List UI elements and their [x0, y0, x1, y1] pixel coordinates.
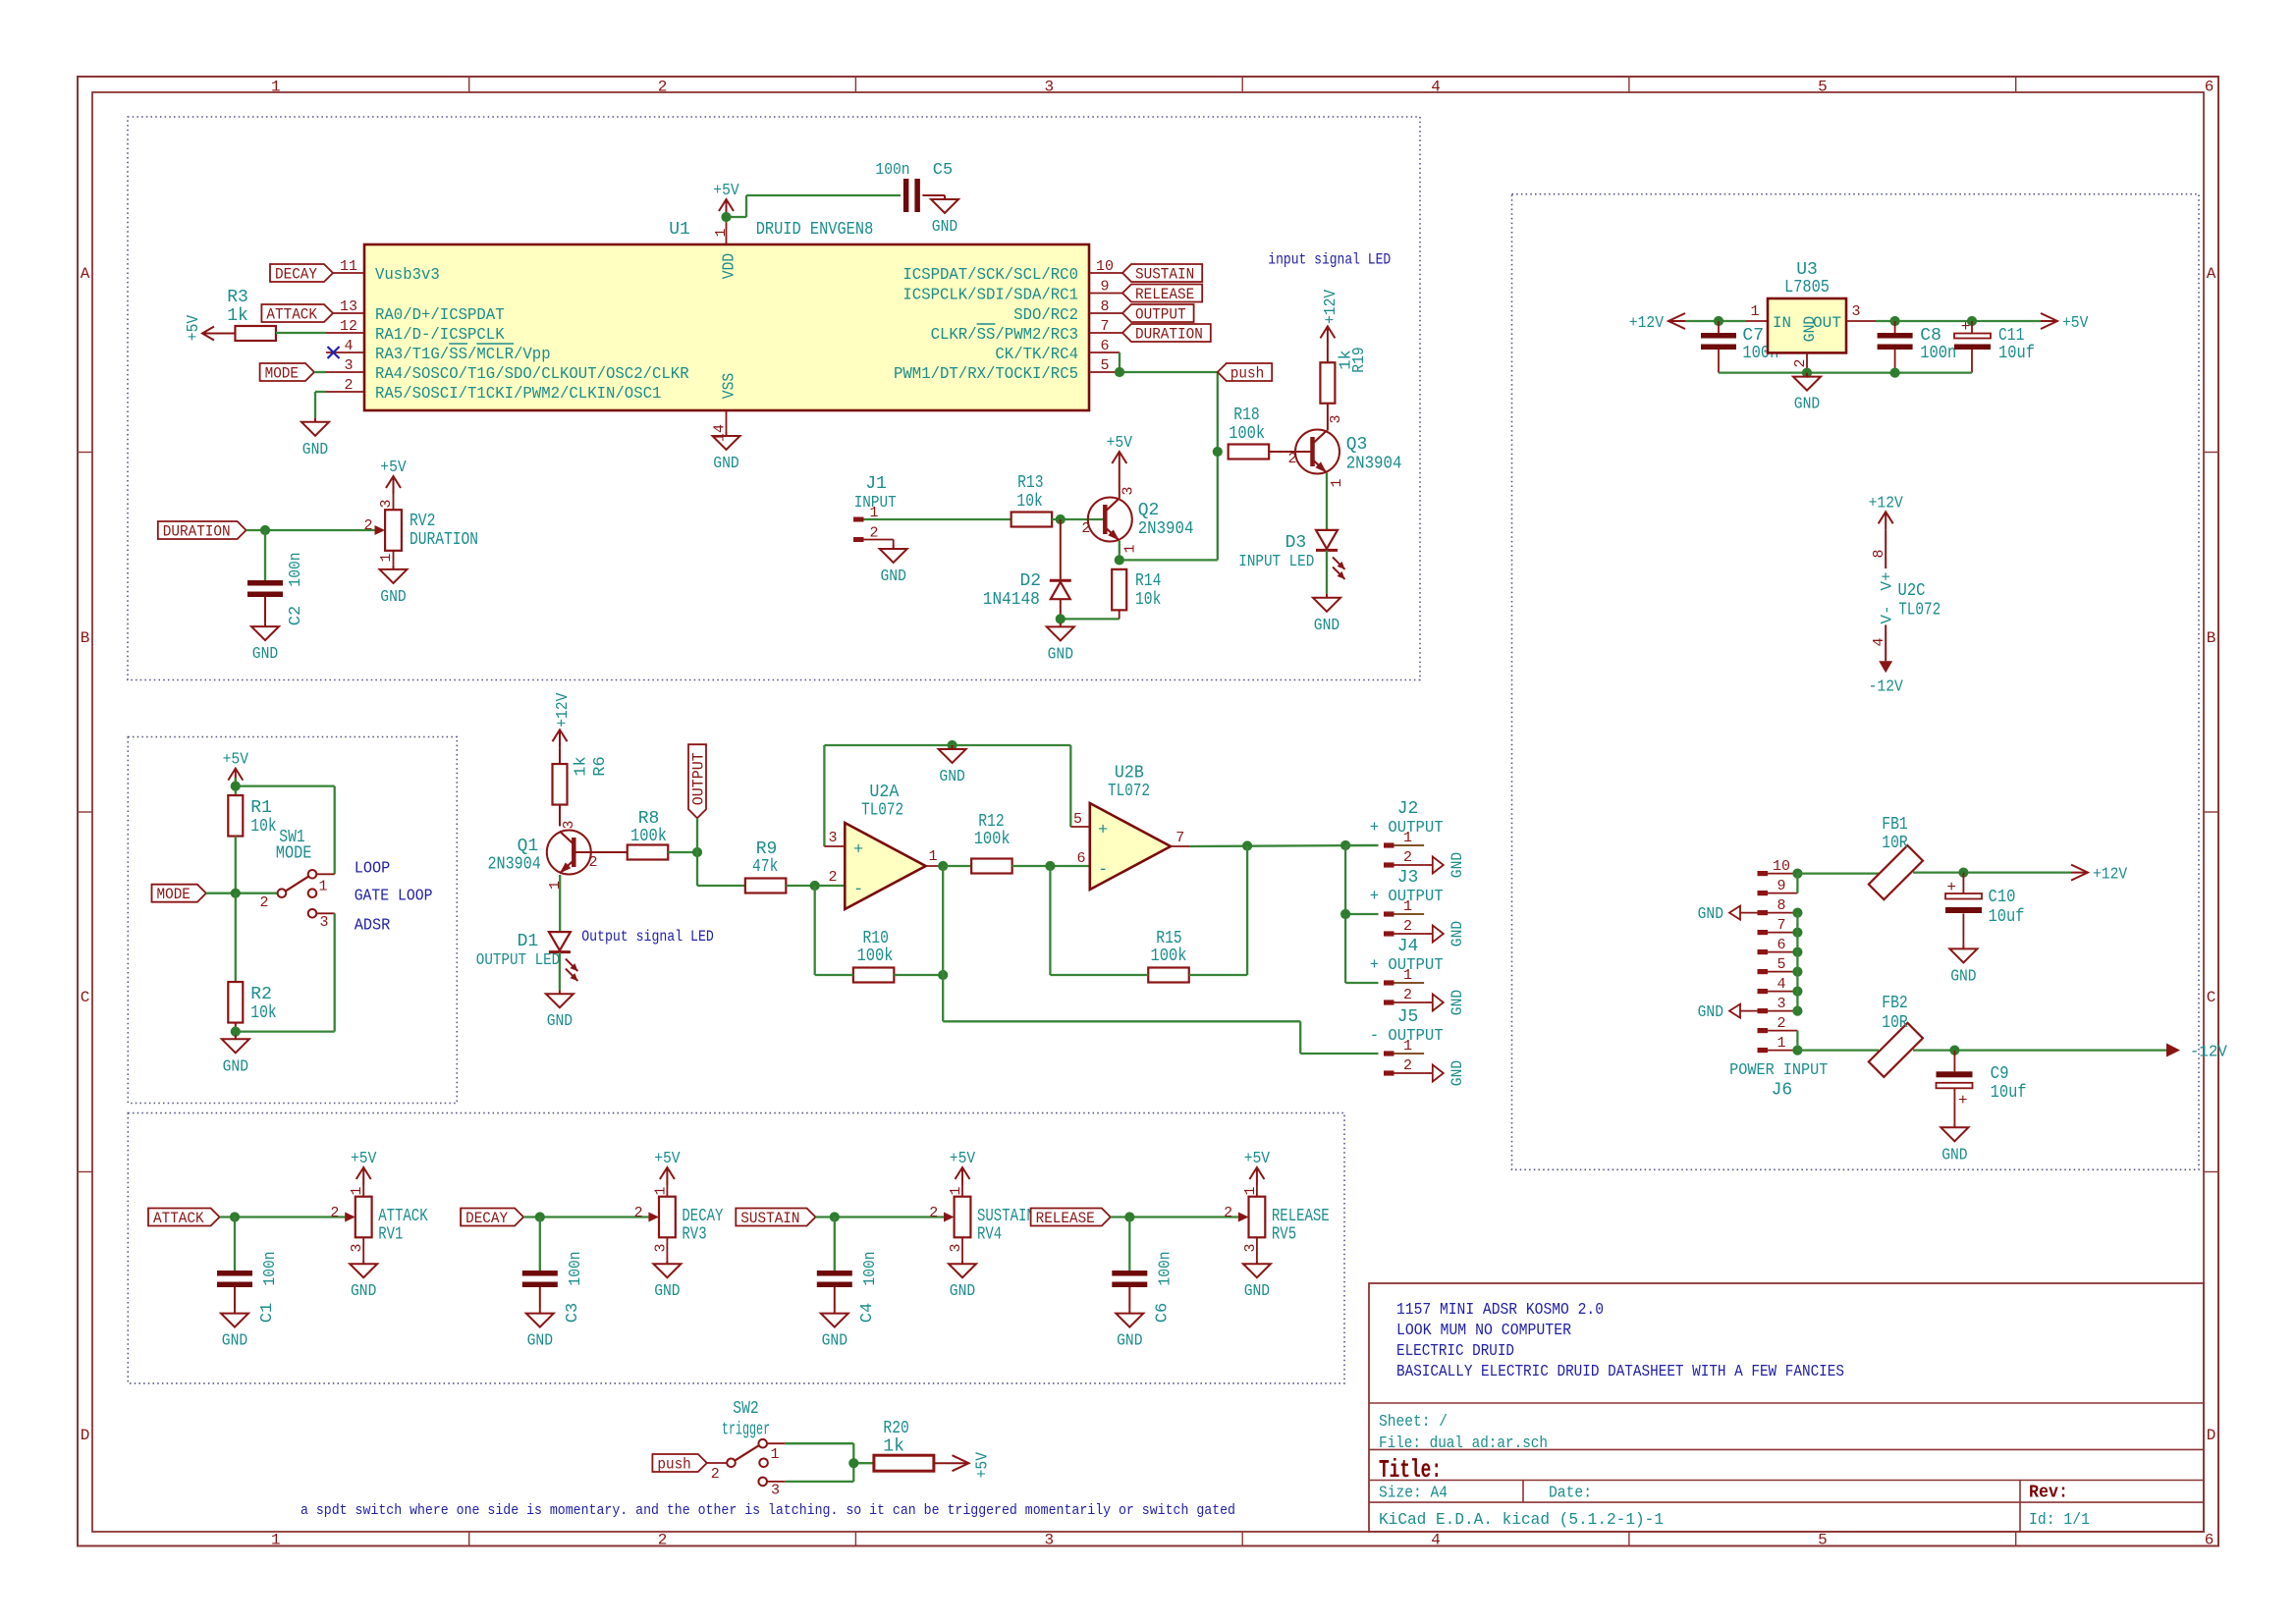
svg-text:Q2: Q2 — [1138, 501, 1160, 520]
svg-text:V-: V- — [1879, 605, 1896, 623]
svg-text:5: 5 — [1818, 1532, 1828, 1549]
svg-text:3: 3 — [1044, 79, 1054, 96]
svg-text:GND: GND — [654, 1282, 680, 1301]
svg-text:1: 1 — [1777, 1035, 1785, 1052]
svg-text:J2: J2 — [1397, 799, 1419, 819]
svg-text:SUSTAIN: SUSTAIN — [977, 1207, 1035, 1226]
resistor R18 — [1229, 406, 1270, 460]
svg-text:R8: R8 — [638, 809, 660, 829]
svg-text:IN: IN — [1773, 314, 1791, 332]
svg-text:2: 2 — [1403, 849, 1412, 866]
switch SW2 trigger labels — [722, 1399, 770, 1440]
transistor Q1 2N3904 mirrored — [488, 820, 598, 890]
svg-text:1: 1 — [1329, 478, 1345, 487]
junction U2A output — [938, 861, 948, 871]
potentiometer RV4 — [929, 1186, 1035, 1252]
svg-text:+5V: +5V — [185, 314, 203, 341]
wire Q3 emitter to D3 — [1326, 473, 1328, 530]
global label MODE at SW1 — [152, 885, 206, 902]
junction Q2 emitter — [1115, 555, 1124, 565]
wire Q1 base to R8 — [574, 851, 628, 853]
wire D3 to gnd — [1326, 551, 1328, 594]
power +12V arrow right — [2071, 865, 2088, 881]
global label DECAY — [270, 264, 333, 282]
U2A pin3 stub — [824, 830, 845, 846]
resistor R20 — [874, 1419, 934, 1471]
junction pin5/pin6 — [1115, 367, 1124, 377]
wire R9 to U2A inverting input — [786, 885, 845, 887]
wire FB2 to -12V — [1913, 1049, 2166, 1051]
no-connect cross on pin 4 — [328, 347, 340, 358]
svg-text:C3: C3 — [564, 1303, 582, 1323]
svg-text:1: 1 — [547, 881, 564, 890]
svg-text:GND: GND — [939, 768, 964, 786]
svg-text:2: 2 — [658, 1532, 668, 1549]
svg-text:2: 2 — [1403, 918, 1412, 935]
svg-text:GND: GND — [527, 1332, 553, 1351]
wire J6 pin10 to FB1 — [1797, 872, 1879, 874]
svg-text:R12: R12 — [978, 812, 1004, 832]
svg-text:3: 3 — [1044, 1532, 1054, 1549]
opamp U2B TL072 — [1090, 764, 1171, 891]
potentiometer RV5 — [1224, 1186, 1330, 1252]
wire U2A out down to J5 net — [943, 866, 1378, 1054]
svg-text:C7: C7 — [1742, 326, 1764, 346]
svg-text:2: 2 — [344, 377, 353, 394]
svg-text:+5V: +5V — [974, 1451, 993, 1478]
svg-text:a spdt switch where one side i: a spdt switch where one side is momentar… — [301, 1502, 1235, 1519]
svg-text:V+: V+ — [1879, 571, 1896, 590]
dashed box around pots section — [128, 1113, 1344, 1383]
svg-text:R3: R3 — [227, 288, 248, 307]
power +5V above RV3 — [654, 1150, 681, 1197]
svg-text:GND: GND — [950, 1282, 975, 1301]
svg-text:9: 9 — [1100, 279, 1109, 296]
wire FB1 to +12V — [1913, 871, 2071, 873]
wire R13 to Q2 base — [1052, 518, 1104, 520]
svg-text:ATTACK: ATTACK — [266, 306, 317, 324]
svg-text:R13: R13 — [1017, 473, 1043, 493]
svg-text:3: 3 — [378, 499, 395, 508]
gnd below R2 — [235, 1035, 237, 1039]
svg-text:PWM1/DT/RX/TOCKI/RC5: PWM1/DT/RX/TOCKI/RC5 — [894, 365, 1078, 384]
junction at C8 — [1890, 316, 1900, 326]
svg-text:C10: C10 — [1989, 888, 2016, 907]
wire +12V to U3 IN — [1685, 320, 1746, 322]
transistor Q2 2N3904 — [1081, 486, 1193, 553]
global label DECAY — [461, 1209, 523, 1226]
power +5V above RV4 — [950, 1150, 976, 1197]
svg-text:RA5/SOSCI/T1CKI/PWM2/CLKIN/OSC: RA5/SOSCI/T1CKI/PWM2/CLKIN/OSC1 — [375, 385, 661, 404]
svg-text:RELEASE: RELEASE — [1036, 1210, 1095, 1227]
svg-text:GND: GND — [1048, 645, 1073, 664]
svg-text:RELEASE: RELEASE — [1272, 1207, 1330, 1226]
capacitor C7 — [1701, 321, 1778, 373]
wire J1 pin2 to gnd — [864, 540, 894, 546]
junction U3 gnd — [1802, 368, 1812, 378]
svg-text:6: 6 — [1777, 937, 1785, 953]
power +5V above RV1 — [351, 1150, 377, 1197]
junction MODE — [231, 889, 241, 898]
wire OUTPUT label down — [696, 818, 698, 852]
svg-text:J5: J5 — [1397, 1007, 1419, 1027]
svg-text:POWER INPUT: POWER INPUT — [1729, 1061, 1828, 1080]
svg-text:+5V: +5V — [950, 1150, 976, 1168]
wire J1 pin1 to R13 — [864, 518, 1012, 520]
svg-text:VSS: VSS — [721, 373, 739, 399]
power +5V above Q2 — [1107, 434, 1133, 499]
svg-text:10uf: 10uf — [1991, 1083, 2027, 1103]
U2B pin5 stub — [1070, 811, 1090, 828]
capacitor C8 — [1878, 321, 1957, 373]
svg-text:RA1/D-/ICSPCLK: RA1/D-/ICSPCLK — [375, 326, 505, 345]
resistor R8 — [628, 809, 669, 860]
svg-text:GND: GND — [822, 1332, 847, 1351]
ferrite bead FB2 — [1869, 994, 1923, 1077]
svg-text:+ OUTPUT: + OUTPUT — [1370, 956, 1444, 975]
ic U1 right pins — [894, 258, 1122, 384]
svg-text:TL072: TL072 — [1898, 601, 1941, 621]
wire SUSTAIN to pot — [816, 1216, 945, 1217]
U2A output pin1 — [926, 848, 944, 866]
svg-text:5: 5 — [1777, 956, 1785, 973]
svg-text:6: 6 — [2205, 1532, 2214, 1549]
capacitor C6 — [1112, 1251, 1175, 1323]
svg-text:A: A — [2207, 265, 2216, 283]
resistor R9 — [745, 839, 787, 893]
wire OUTPUT junction to R9 — [697, 852, 745, 886]
svg-text:2N3904: 2N3904 — [1138, 519, 1194, 539]
svg-text:Date:: Date: — [1549, 1485, 1592, 1503]
svg-text:5: 5 — [1818, 79, 1828, 96]
gnd flag at J3 pin2 — [1433, 926, 1444, 943]
gnd below C1 — [234, 1310, 236, 1314]
junction ATTACK — [230, 1212, 240, 1221]
svg-text:TL072: TL072 — [861, 801, 903, 821]
svg-text:2: 2 — [828, 869, 837, 886]
svg-text:R9: R9 — [756, 839, 778, 859]
junction dots J6 bus — [1792, 869, 1802, 1055]
svg-text:10: 10 — [1096, 258, 1114, 275]
svg-text:A: A — [81, 265, 90, 283]
svg-text:GND: GND — [1244, 1282, 1270, 1301]
svg-text:RA0/D+/ICSPDAT: RA0/D+/ICSPDAT — [375, 306, 505, 325]
svg-text:SUSTAIN: SUSTAIN — [1135, 266, 1194, 284]
wire C5 to gnd — [922, 194, 945, 196]
title block fields — [1379, 1413, 2090, 1530]
capacitor C5 — [875, 161, 953, 212]
svg-text:R15: R15 — [1156, 929, 1181, 948]
wire R18 to Q3 base — [1270, 451, 1311, 453]
svg-text:R14: R14 — [1135, 571, 1161, 591]
svg-text:DECAY: DECAY — [465, 1210, 509, 1227]
gnd flag at J2 pin2 — [1433, 857, 1444, 874]
junction below D2 — [1056, 614, 1066, 623]
svg-text:D1: D1 — [518, 932, 539, 951]
capacitor C11 polarized — [1954, 318, 2035, 373]
svg-text:GND: GND — [351, 1282, 376, 1301]
svg-text:+5V: +5V — [2062, 314, 2089, 333]
svg-text:4: 4 — [1777, 976, 1785, 993]
svg-text:DRUID ENVGEN8: DRUID ENVGEN8 — [756, 220, 874, 240]
svg-text:RA4/SOSCO/T1G/SDO/CLKOUT/OSC2/: RA4/SOSCO/T1G/SDO/CLKOUT/OSC2/CLKR — [375, 365, 689, 384]
svg-text:- OUTPUT: - OUTPUT — [1370, 1027, 1444, 1046]
resistor R15 — [1148, 929, 1189, 983]
gnd below RV3 — [653, 1237, 681, 1301]
gnd below pin 2 — [314, 418, 316, 422]
ic U1 DRUID ENVGEN8 body — [364, 244, 1089, 410]
svg-text:3: 3 — [1121, 486, 1137, 495]
svg-text:GND: GND — [881, 568, 906, 586]
U2A pin2 stub — [828, 869, 837, 886]
svg-text:TL072: TL072 — [1108, 782, 1150, 801]
svg-text:Title:: Title: — [1379, 1455, 1442, 1485]
svg-text:1k: 1k — [227, 306, 248, 326]
svg-text:100k: 100k — [1229, 424, 1265, 444]
wire SW1 pin3 to R2 bottom — [236, 913, 335, 1031]
svg-text:GND: GND — [252, 645, 278, 664]
gnd below C6 — [1128, 1310, 1130, 1314]
global label RELEASE — [1031, 1209, 1111, 1226]
junction SUSTAIN — [830, 1212, 840, 1221]
gnd flag at J5 pin2 — [1433, 1065, 1444, 1082]
gnd below D2 — [1060, 622, 1062, 626]
wire MODE label to switch — [206, 893, 278, 894]
power -12V below U2C — [1879, 661, 1892, 673]
gnd below C4 — [834, 1310, 836, 1314]
svg-text:2: 2 — [711, 1466, 720, 1483]
potentiometer RV2 — [363, 499, 478, 562]
resistor R3 — [227, 288, 276, 341]
svg-text:100k: 100k — [857, 947, 894, 966]
wire C2 to gnd — [264, 597, 266, 622]
junction J3 row — [1340, 909, 1350, 919]
svg-text:8: 8 — [1100, 298, 1109, 315]
connector J4 + OUTPUT — [1370, 937, 1444, 1005]
junction J2 — [1340, 840, 1350, 850]
global label DURATION at U1 — [1122, 324, 1211, 342]
svg-text:1: 1 — [271, 1532, 281, 1549]
svg-text:OUTPUT: OUTPUT — [690, 752, 708, 805]
svg-text:VDD: VDD — [721, 253, 739, 279]
wire R6 to Q1 collector — [559, 805, 561, 827]
svg-text:GND: GND — [380, 588, 406, 607]
switch SW2 spdt — [711, 1439, 786, 1499]
svg-text:GND: GND — [223, 1057, 248, 1076]
wire DECAY to pot — [523, 1216, 648, 1217]
svg-text:1: 1 — [318, 879, 327, 895]
svg-text:GND: GND — [302, 441, 328, 460]
svg-text:1k: 1k — [573, 756, 591, 776]
wire J6 pin9 to pin10 — [1796, 874, 1798, 893]
wire C4 to gnd — [834, 1287, 836, 1310]
gnd below C10 — [1962, 945, 1964, 948]
svg-text:4: 4 — [1431, 1532, 1441, 1549]
svg-text:MODE: MODE — [157, 886, 191, 903]
capacitor C4 — [817, 1251, 880, 1323]
resistor R1 — [228, 795, 276, 837]
wire MODE label to pin 3 — [314, 371, 326, 373]
wire gnd loop above U2A — [824, 745, 1070, 846]
wire C2 to DURATION net — [264, 530, 266, 581]
wire R10 feedback loop — [815, 886, 944, 975]
svg-text:+5V: +5V — [351, 1150, 377, 1168]
gnd flag at J6 pin3 — [1698, 1003, 1758, 1022]
led D3 INPUT LED — [1238, 530, 1344, 579]
svg-text:GND: GND — [547, 1012, 573, 1031]
svg-text:2: 2 — [259, 894, 268, 911]
wire pin6 to pin5 net — [1120, 352, 1218, 372]
connector J2 + OUTPUT — [1370, 799, 1444, 868]
svg-text:FB1: FB1 — [1882, 815, 1907, 835]
svg-text:5: 5 — [1073, 811, 1082, 828]
svg-text:MODE: MODE — [276, 844, 312, 864]
svg-text:100k: 100k — [974, 830, 1011, 849]
svg-text:2: 2 — [634, 1205, 643, 1221]
power +12V arrow at U3 input — [1668, 313, 1685, 329]
svg-text:1: 1 — [378, 553, 395, 562]
gnd at top loop — [952, 745, 954, 749]
svg-text:+: + — [1961, 318, 1971, 336]
gnd below RV2 — [380, 551, 408, 607]
svg-text:R2: R2 — [250, 985, 272, 1004]
svg-text:10uf: 10uf — [1989, 907, 2025, 927]
svg-text:+: + — [853, 841, 863, 860]
svg-text:KiCad E.D.A. kicad (5.1.2-1)-: KiCad E.D.A. kicad (5.1.2-1)-1 — [1379, 1511, 1664, 1530]
svg-text:Vusb3v3: Vusb3v3 — [375, 266, 440, 285]
resistor R10 — [853, 929, 895, 983]
svg-text:R6: R6 — [591, 756, 610, 776]
svg-text:100k: 100k — [630, 827, 667, 846]
svg-text:10k: 10k — [250, 1003, 276, 1023]
ic U1 overline on CLKR SS — [977, 323, 996, 325]
capacitor C9 polarized — [1937, 1051, 2027, 1124]
wire U3 OUT to +5V — [1846, 320, 2041, 322]
wire J6 pin1 to FB2 — [1797, 1049, 1879, 1051]
power +5V above R1 — [235, 769, 237, 786]
svg-text:+5V: +5V — [223, 751, 249, 770]
svg-text:2: 2 — [588, 854, 597, 871]
global label OUTPUT at U1 — [1122, 304, 1194, 322]
dashed box around microcontroller section — [128, 117, 1420, 680]
ferrite bead FB1 — [1869, 815, 1923, 899]
wire MODE junction to R2 — [235, 893, 237, 982]
svg-text:C6: C6 — [1153, 1303, 1172, 1323]
junction +5V R1 — [231, 782, 241, 791]
svg-text:push: push — [1230, 365, 1264, 383]
global label DURATION at RV2 — [158, 521, 246, 539]
potentiometer RV3 — [634, 1186, 724, 1252]
global label MODE at U1 — [260, 363, 314, 381]
wire RELEASE to pot — [1111, 1216, 1238, 1217]
ic U1 overline marks on SS MCLR — [449, 343, 514, 345]
svg-text:10k: 10k — [250, 817, 276, 837]
power +12V above U2C — [1885, 512, 1886, 529]
junction OUTPUT — [692, 847, 702, 857]
svg-text:GND: GND — [222, 1332, 247, 1351]
svg-text:+5V: +5V — [1244, 1150, 1271, 1168]
svg-text:1N4148: 1N4148 — [983, 590, 1040, 610]
power +5V arrow at U3 output — [2041, 313, 2057, 329]
resistor R19 — [1320, 347, 1369, 430]
wire R2 to gnd — [235, 1023, 237, 1036]
junction R9 R10 — [810, 881, 820, 891]
svg-text:100n: 100n — [861, 1251, 880, 1285]
svg-text:D: D — [81, 1427, 90, 1444]
wire Q2 emitter to R14 and R18 net — [1120, 372, 1218, 560]
capacitor C10 polarized — [1945, 873, 2025, 946]
svg-text:OUTPUT LED: OUTPUT LED — [476, 951, 560, 970]
gnd flag at J6 pin8 — [1698, 905, 1758, 924]
svg-text:2: 2 — [363, 517, 372, 534]
wire J6 gnd bus pins 3-8 — [1796, 913, 1798, 1011]
power +5V left of R3 — [185, 314, 236, 341]
wire R8 to OUTPUT junction — [668, 851, 697, 853]
svg-text:D3: D3 — [1285, 533, 1307, 553]
svg-text:GND: GND — [1449, 1060, 1466, 1086]
gnd below RV1 — [350, 1237, 377, 1301]
junction R15 top — [1242, 840, 1252, 850]
svg-text:C: C — [2207, 989, 2216, 1006]
svg-text:R1: R1 — [250, 798, 272, 818]
gnd below J1 — [893, 545, 895, 549]
junction at R18 — [1213, 447, 1223, 457]
wire DURATION to RV2 — [246, 529, 375, 531]
wire D2 R14 to gnd — [1061, 610, 1120, 622]
svg-text:3: 3 — [319, 914, 328, 931]
junction C9 — [1949, 1046, 1959, 1055]
wire C3 to gnd — [539, 1287, 541, 1310]
svg-text:4: 4 — [344, 338, 353, 354]
svg-text:CLKR/SS/PWM2/RC3: CLKR/SS/PWM2/RC3 — [931, 326, 1078, 345]
svg-text:+5V: +5V — [380, 459, 407, 477]
svg-text:ATTACK: ATTACK — [378, 1207, 428, 1226]
wire C1 to gnd — [234, 1287, 236, 1310]
svg-text:1157 MINI ADSR KOSMO 2.0: 1157 MINI ADSR KOSMO 2.0 — [1396, 1301, 1604, 1320]
diode D2 1N4148 — [983, 519, 1071, 619]
led D1 OUTPUT LED mirrored — [476, 932, 578, 981]
svg-text:RELEASE: RELEASE — [1135, 286, 1194, 303]
wire +5V to R1 and SW1 pin1 — [236, 778, 335, 874]
svg-text:3: 3 — [828, 830, 837, 846]
svg-text:4: 4 — [1431, 79, 1441, 96]
wire +5V to VDD and C5 — [727, 195, 902, 223]
svg-text:RV1: RV1 — [378, 1225, 403, 1245]
ic U1 left pins — [326, 258, 689, 404]
svg-text:6: 6 — [1100, 338, 1109, 354]
ic U1 VDD pin — [713, 223, 739, 280]
sheet column numbers — [271, 79, 2214, 1549]
svg-text:2: 2 — [1403, 987, 1412, 1003]
wire push to SW2 — [707, 1462, 727, 1464]
junction at C7 — [1714, 316, 1723, 326]
svg-text:C5: C5 — [933, 161, 953, 180]
svg-text:10R: 10R — [1882, 1013, 1908, 1033]
svg-text:7: 7 — [1777, 917, 1785, 934]
svg-text:U1: U1 — [669, 220, 690, 240]
svg-text:GND: GND — [1950, 967, 1976, 986]
gnd below C3 — [539, 1310, 541, 1314]
svg-text:9: 9 — [1777, 878, 1785, 894]
svg-text:GND: GND — [1698, 1003, 1723, 1022]
opamp U2A TL072 — [845, 783, 925, 909]
title block comment text — [1396, 1301, 1844, 1381]
svg-text:C4: C4 — [858, 1303, 877, 1323]
wire R3 to pin 12 — [276, 332, 326, 334]
svg-text:100n: 100n — [1920, 344, 1956, 363]
wire J6 pin2 to pin1 — [1796, 1031, 1798, 1051]
svg-text:8: 8 — [1871, 549, 1887, 558]
